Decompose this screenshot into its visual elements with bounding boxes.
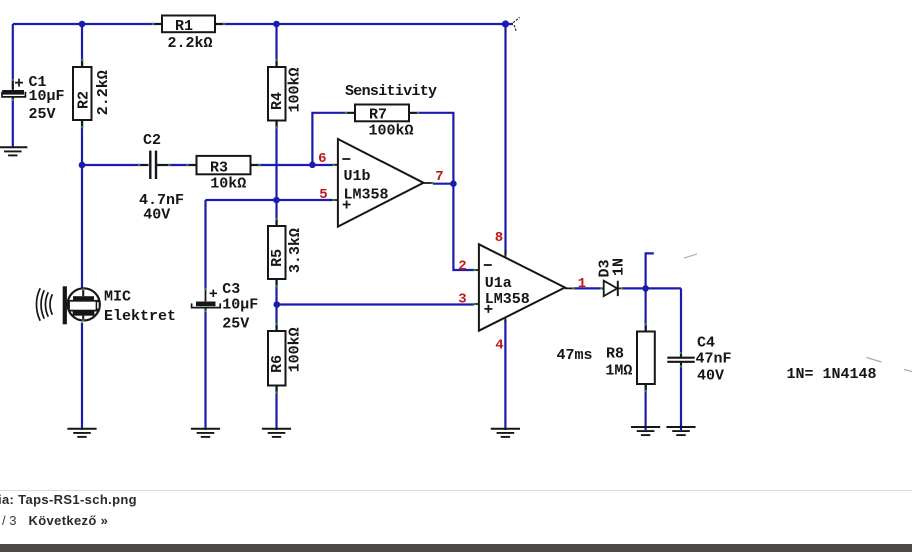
svg-text:Sensitivity: Sensitivity — [345, 83, 437, 100]
wire R8 to ground — [644, 384, 646, 430]
junction at R2 top — [79, 21, 86, 28]
svg-text:47nF: 47nF — [696, 350, 732, 367]
label C1 value — [29, 74, 65, 123]
faint artifact above 1N4148 — [867, 358, 882, 363]
svg-text:R4: R4 — [269, 92, 286, 110]
svg-text:2.2kΩ: 2.2kΩ — [167, 35, 212, 52]
label C4 value — [696, 334, 732, 384]
junction at R4 top — [273, 21, 280, 28]
svg-text:7: 7 — [435, 169, 443, 185]
svg-text:100kΩ: 100kΩ — [368, 123, 413, 140]
wire R7 to U1b output node — [409, 113, 453, 184]
svg-text:4: 4 — [495, 337, 503, 353]
resistor R2 — [73, 59, 92, 128]
wire U1a pin 4 to ground — [504, 320, 506, 430]
svg-text:3: 3 — [458, 292, 466, 308]
wire C1 branch from top rail — [12, 24, 14, 89]
svg-text:R5: R5 — [269, 249, 286, 267]
svg-text:C4: C4 — [697, 334, 715, 351]
svg-text:47ms: 47ms — [557, 347, 593, 364]
diode D3 — [600, 281, 623, 296]
faint artifact near output node — [684, 254, 697, 258]
wire output node to R8 — [644, 288, 646, 331]
ground below R8 — [631, 427, 660, 435]
resistor R8 — [637, 323, 655, 392]
svg-text:40V: 40V — [143, 206, 170, 223]
wire R4 divider column — [275, 24, 277, 226]
resistor R7 — [345, 105, 419, 122]
wire MIC to ground — [81, 323, 83, 431]
svg-text:10µF: 10µF — [29, 88, 65, 105]
wire C4 to ground — [680, 363, 682, 430]
junction top right corner — [502, 20, 509, 27]
wire output node to C4 — [646, 288, 681, 356]
wire R3 to U1b pin 6 — [251, 164, 333, 166]
svg-text:100kΩ: 100kΩ — [287, 327, 304, 372]
resistor R1 — [152, 16, 225, 33]
capacitor C3 — [192, 288, 221, 312]
junction divider to pin 5 — [273, 197, 280, 204]
svg-text:MIC: MIC — [104, 289, 131, 306]
svg-text:25V: 25V — [222, 315, 249, 332]
filename caption — [0, 492, 137, 507]
microphone MIC Elektret — [36, 286, 99, 324]
svg-text:6: 6 — [318, 151, 326, 167]
resistor R6 — [268, 323, 286, 394]
label MIC Elektret — [104, 289, 176, 326]
wire C2 to R3 — [156, 164, 197, 166]
separator line — [0, 490, 912, 491]
svg-text:2.2kΩ: 2.2kΩ — [95, 70, 112, 115]
svg-text:25V: 25V — [29, 106, 56, 123]
wire top rail to U1a pin 8 — [504, 24, 506, 255]
svg-text:R8: R8 — [606, 346, 624, 363]
ground below U1a pin 4 — [491, 429, 520, 437]
svg-text:1: 1 — [578, 276, 586, 292]
svg-text:R7: R7 — [369, 107, 387, 124]
svg-text:LM358: LM358 — [485, 291, 530, 308]
wire R5 to R6 column — [275, 279, 277, 331]
svg-text:R2: R2 — [76, 91, 93, 109]
wire pin5 node down to C3 — [204, 200, 206, 290]
svg-text:5: 5 — [319, 187, 327, 203]
resistor R5 — [268, 218, 286, 287]
junction at R2 bottom node — [79, 162, 86, 169]
bottom status bar — [0, 544, 912, 552]
junction at U1b output pin 7 — [450, 180, 457, 187]
wire output node stub up — [646, 253, 654, 288]
wire R6 to ground — [275, 386, 277, 431]
capacitor C2 — [138, 151, 171, 179]
junction at D3 cathode output node — [642, 285, 649, 292]
capacitor C4 — [667, 352, 694, 368]
svg-text:R6: R6 — [269, 355, 286, 373]
wire U1a output to D3 — [574, 287, 601, 289]
op-amp U1b — [332, 139, 433, 227]
label C3 value — [222, 281, 258, 332]
faint artifact right edge — [904, 370, 912, 372]
wire C3 to ground — [204, 309, 206, 430]
ground below C4 — [666, 427, 695, 435]
svg-text:2: 2 — [458, 258, 466, 274]
svg-text:C2: C2 — [143, 132, 161, 149]
svg-text:R1: R1 — [175, 18, 193, 35]
wire divider node to U1a pin 3 — [277, 303, 475, 305]
svg-text:3.3kΩ: 3.3kΩ — [287, 228, 304, 273]
svg-text:40V: 40V — [697, 368, 724, 385]
svg-text:8: 8 — [495, 230, 503, 246]
svg-text:10kΩ: 10kΩ — [210, 176, 246, 193]
svg-text:U1b: U1b — [344, 168, 371, 185]
svg-text:R3: R3 — [210, 159, 228, 176]
wire U1b pin 5 net — [206, 199, 334, 201]
wire node to C2 — [82, 164, 149, 166]
wire U1b feedback loop via R7 — [312, 113, 355, 165]
pager navigation — [2, 513, 16, 528]
ground below R6 — [262, 429, 291, 437]
svg-text:100kΩ: 100kΩ — [287, 67, 304, 112]
wire C1 to ground — [12, 98, 14, 148]
capacitor C1 — [2, 79, 25, 102]
svg-text:1MΩ: 1MΩ — [605, 362, 632, 379]
svg-text:Elektret: Elektret — [104, 308, 176, 325]
junction at U1b pin 6 — [309, 162, 316, 169]
op-amp U1a — [473, 244, 574, 330]
cursor mark at top right — [513, 17, 519, 31]
wire R2 branch — [81, 24, 83, 165]
label C2 value 4.7nF 40V — [139, 192, 184, 223]
resistor R3 — [186, 156, 260, 174]
wire D3 to output node — [622, 287, 646, 289]
wire U1b output to U1a pin 2 — [433, 184, 474, 270]
wire main V+ top rail — [13, 23, 513, 25]
svg-text:LM358: LM358 — [344, 186, 389, 203]
wire node at R2 bottom to MIC — [81, 165, 83, 288]
junction divider to pin 3 — [274, 301, 281, 308]
ground below MIC — [67, 429, 96, 437]
svg-text:U1a: U1a — [485, 275, 512, 292]
svg-text:10µF: 10µF — [222, 296, 258, 313]
resistor R4 — [268, 59, 286, 129]
svg-text:1N: 1N — [611, 258, 628, 276]
ground below C3 — [191, 429, 220, 437]
ground below C1 — [0, 147, 27, 155]
svg-text:1N= 1N4148: 1N= 1N4148 — [787, 366, 877, 383]
